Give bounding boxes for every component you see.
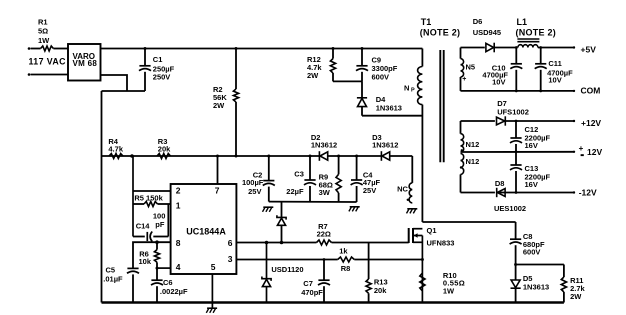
svg-text:25V: 25V: [363, 186, 376, 195]
svg-text:2W: 2W: [213, 101, 225, 110]
resistor R1: [41, 46, 54, 51]
svg-text:250V: 250V: [153, 72, 171, 81]
svg-text:3W: 3W: [319, 188, 331, 197]
svg-text:.01µF: .01µF: [103, 275, 123, 284]
resistor R12 (snubber): [332, 49, 334, 59]
transistor Q1 UFN833: [422, 221, 515, 223]
svg-text:16V: 16V: [525, 180, 538, 189]
svg-text:UFN833: UFN833: [427, 238, 455, 247]
svg-text:C6: C6: [163, 278, 173, 287]
capacitor C12: [515, 120, 518, 123]
svg-text:22Ω: 22Ω: [317, 230, 331, 239]
wire to current sense node: [354, 259, 422, 261]
svg-text:COM: COM: [581, 86, 601, 96]
resistor R9: [338, 156, 340, 174]
capacitor C14 100pF: [133, 236, 145, 238]
capacitor C3: [309, 156, 311, 180]
svg-text:C11: C11: [548, 59, 561, 68]
resistor R7 22ohm: [317, 240, 332, 245]
svg-text:+: +: [579, 144, 584, 153]
wire row to C1 bottom: [102, 90, 146, 92]
inductor L1 (NOTE 2): [518, 45, 538, 48]
svg-text:7: 7: [215, 186, 220, 196]
wire top DC rail: [101, 48, 423, 50]
wire -12V row: [461, 192, 495, 194]
wire left vertical (primary return): [101, 91, 103, 303]
wire +5V rail: [461, 47, 485, 49]
wire C2/C3/R9/C4 bottom row: [269, 201, 357, 203]
svg-text:10V: 10V: [548, 76, 561, 85]
svg-text:Q1: Q1: [427, 226, 437, 235]
svg-text:1N3612: 1N3612: [372, 140, 398, 149]
capacitor C4: [356, 156, 358, 180]
svg-text:USD1120: USD1120: [271, 265, 303, 274]
transformer winding N12 upper: [461, 134, 464, 152]
wire +12V row: [461, 120, 495, 122]
svg-text:R5 150k: R5 150k: [134, 194, 163, 203]
svg-text:5: 5: [211, 262, 216, 272]
resistor R11 2.7k: [563, 265, 565, 278]
svg-text:117 VAC: 117 VAC: [29, 57, 67, 67]
svg-text:NC: NC: [397, 184, 408, 193]
svg-text:12V: 12V: [587, 147, 602, 157]
svg-text:22µF: 22µF: [286, 187, 304, 196]
transformer winding N5: [461, 59, 464, 77]
svg-text:C1: C1: [153, 55, 163, 64]
svg-text:+5V: +5V: [581, 45, 597, 55]
wire pin4 row: [157, 267, 171, 269]
svg-text:-12V: -12V: [579, 188, 597, 198]
ground (NC): [407, 208, 417, 210]
transformer winding N12 lower: [461, 154, 464, 175]
wire mid rail (VCC feed): [102, 155, 413, 157]
resistor R3: [157, 154, 171, 159]
transformer T1 primary winding Np: [421, 49, 423, 67]
diode D2 1N3612: [320, 152, 328, 160]
svg-text:1N3612: 1N3612: [311, 140, 337, 149]
svg-text:2: 2: [176, 186, 181, 196]
resistor R13 20k (gate pulldown): [368, 243, 370, 280]
diode D8 UES1002: [497, 189, 505, 197]
terminal AC line bottom: [28, 73, 31, 76]
wire FB/comp vertical: [132, 156, 134, 237]
resistor R8 1k: [338, 257, 355, 262]
svg-text:UFS1002: UFS1002: [497, 107, 529, 116]
diode D4 1N3613 (clamp): [358, 98, 367, 106]
capacitor C1: [144, 49, 146, 66]
svg-text:4: 4: [176, 262, 181, 272]
capacitor C13: [515, 152, 517, 165]
wire pin6 row: [236, 242, 316, 244]
svg-text:1W: 1W: [38, 36, 50, 45]
svg-text:600V: 600V: [523, 248, 541, 257]
svg-text:1k: 1k: [339, 247, 348, 256]
svg-text:N12: N12: [466, 157, 480, 166]
wire C8 bottom row: [516, 264, 564, 266]
svg-text:470pF: 470pF: [301, 288, 323, 297]
wire pin8 row: [133, 242, 171, 268]
transformer winding NC: [411, 156, 413, 183]
svg-text:UC1844A: UC1844A: [186, 226, 226, 236]
capacitor C10: [515, 46, 518, 49]
junction dots: [144, 47, 147, 50]
svg-text:25V: 25V: [248, 187, 261, 196]
wire pin5 to ground: [211, 274, 213, 308]
svg-text:4.7k: 4.7k: [108, 145, 123, 154]
diode D3 1N3612: [382, 152, 390, 160]
svg-text:100µF: 100µF: [242, 178, 264, 187]
svg-text:D8: D8: [495, 179, 505, 188]
svg-text:16V: 16V: [525, 141, 538, 150]
wire pin3 row: [236, 259, 337, 261]
svg-text:3: 3: [228, 254, 233, 264]
capacitor C2: [268, 156, 270, 181]
svg-text:20k: 20k: [374, 286, 387, 295]
svg-text:+12V: +12V: [581, 118, 601, 128]
svg-text:VM 68: VM 68: [73, 59, 98, 68]
capacitor C8 680pF: [515, 222, 517, 239]
resistor R10 0.55ohm: [420, 273, 425, 291]
wire VARO bottom out step: [101, 75, 128, 91]
svg-text:R1: R1: [38, 18, 48, 27]
svg-text:2W: 2W: [307, 71, 319, 80]
capacitor C11: [539, 46, 542, 49]
svg-text:T1: T1: [421, 17, 432, 27]
svg-text:(NOTE 2): (NOTE 2): [420, 27, 461, 37]
wire gate drive: [332, 242, 409, 244]
svg-text:R8: R8: [341, 264, 351, 273]
svg-text:L1: L1: [517, 17, 528, 27]
bridge rectifier VARO VM 68: [68, 44, 101, 81]
ground (C4): [350, 206, 360, 208]
capacitor C6 .0022uF: [156, 268, 158, 280]
wire center tap row (+-12V common): [461, 151, 574, 153]
svg-text:D6: D6: [473, 17, 483, 26]
svg-text:C5: C5: [106, 266, 116, 275]
transformer T1 core: [439, 50, 441, 162]
capacitor C7 470pF: [323, 258, 326, 261]
op-amp/PWM IC U1 UC1844A: [171, 184, 237, 274]
wire bottom ground rail: [102, 301, 564, 303]
svg-text:600V: 600V: [372, 73, 390, 82]
svg-text:6: 6: [228, 238, 233, 248]
svg-text:N: N: [404, 83, 409, 92]
svg-text:10V: 10V: [492, 77, 505, 86]
svg-text:1N3613: 1N3613: [376, 104, 402, 113]
svg-text:5Ω: 5Ω: [38, 27, 48, 36]
diode D6 USD945: [486, 43, 494, 51]
resistor R4: [109, 154, 123, 159]
ground (C2): [263, 206, 273, 208]
resistor R2: [235, 49, 237, 90]
capacitor C9 (snubber): [361, 49, 363, 66]
ground (pin5): [207, 307, 217, 309]
svg-text:UES1002: UES1002: [494, 204, 526, 213]
svg-text:C3: C3: [294, 170, 304, 179]
svg-text:N5: N5: [466, 62, 476, 71]
wire COM rail: [461, 90, 574, 92]
terminal AC line top: [28, 47, 31, 50]
resistor R5 150k: [133, 203, 144, 205]
svg-text:C14: C14: [136, 222, 151, 231]
svg-text:20k: 20k: [158, 145, 171, 154]
svg-text:1W: 1W: [443, 286, 455, 295]
capacitor C5: [127, 267, 138, 269]
svg-text:N12: N12: [466, 140, 480, 149]
svg-text:1: 1: [176, 201, 181, 211]
wire pin7 to mid rail: [217, 156, 219, 184]
resistor R6 10k: [155, 240, 159, 244]
diode USD1120: [266, 243, 268, 279]
wire clamp to drain node: [362, 115, 422, 117]
svg-text:.0022µF: .0022µF: [160, 287, 188, 296]
diode (C3 row to pin6 row): [281, 202, 283, 217]
diode D5 1N3613: [515, 265, 517, 281]
svg-text:+: +: [462, 76, 466, 83]
svg-text:10k: 10k: [139, 257, 152, 266]
svg-text:2W: 2W: [570, 292, 582, 301]
wire pin2 row: [133, 190, 171, 192]
svg-text:(NOTE 2): (NOTE 2): [516, 27, 557, 37]
diode D7 UFS1002: [497, 117, 505, 125]
svg-text:1N3613: 1N3613: [523, 283, 549, 292]
svg-text:pF: pF: [155, 220, 165, 229]
svg-text:P: P: [411, 87, 415, 93]
svg-text:8: 8: [176, 238, 181, 248]
svg-text:USD945: USD945: [473, 28, 501, 37]
